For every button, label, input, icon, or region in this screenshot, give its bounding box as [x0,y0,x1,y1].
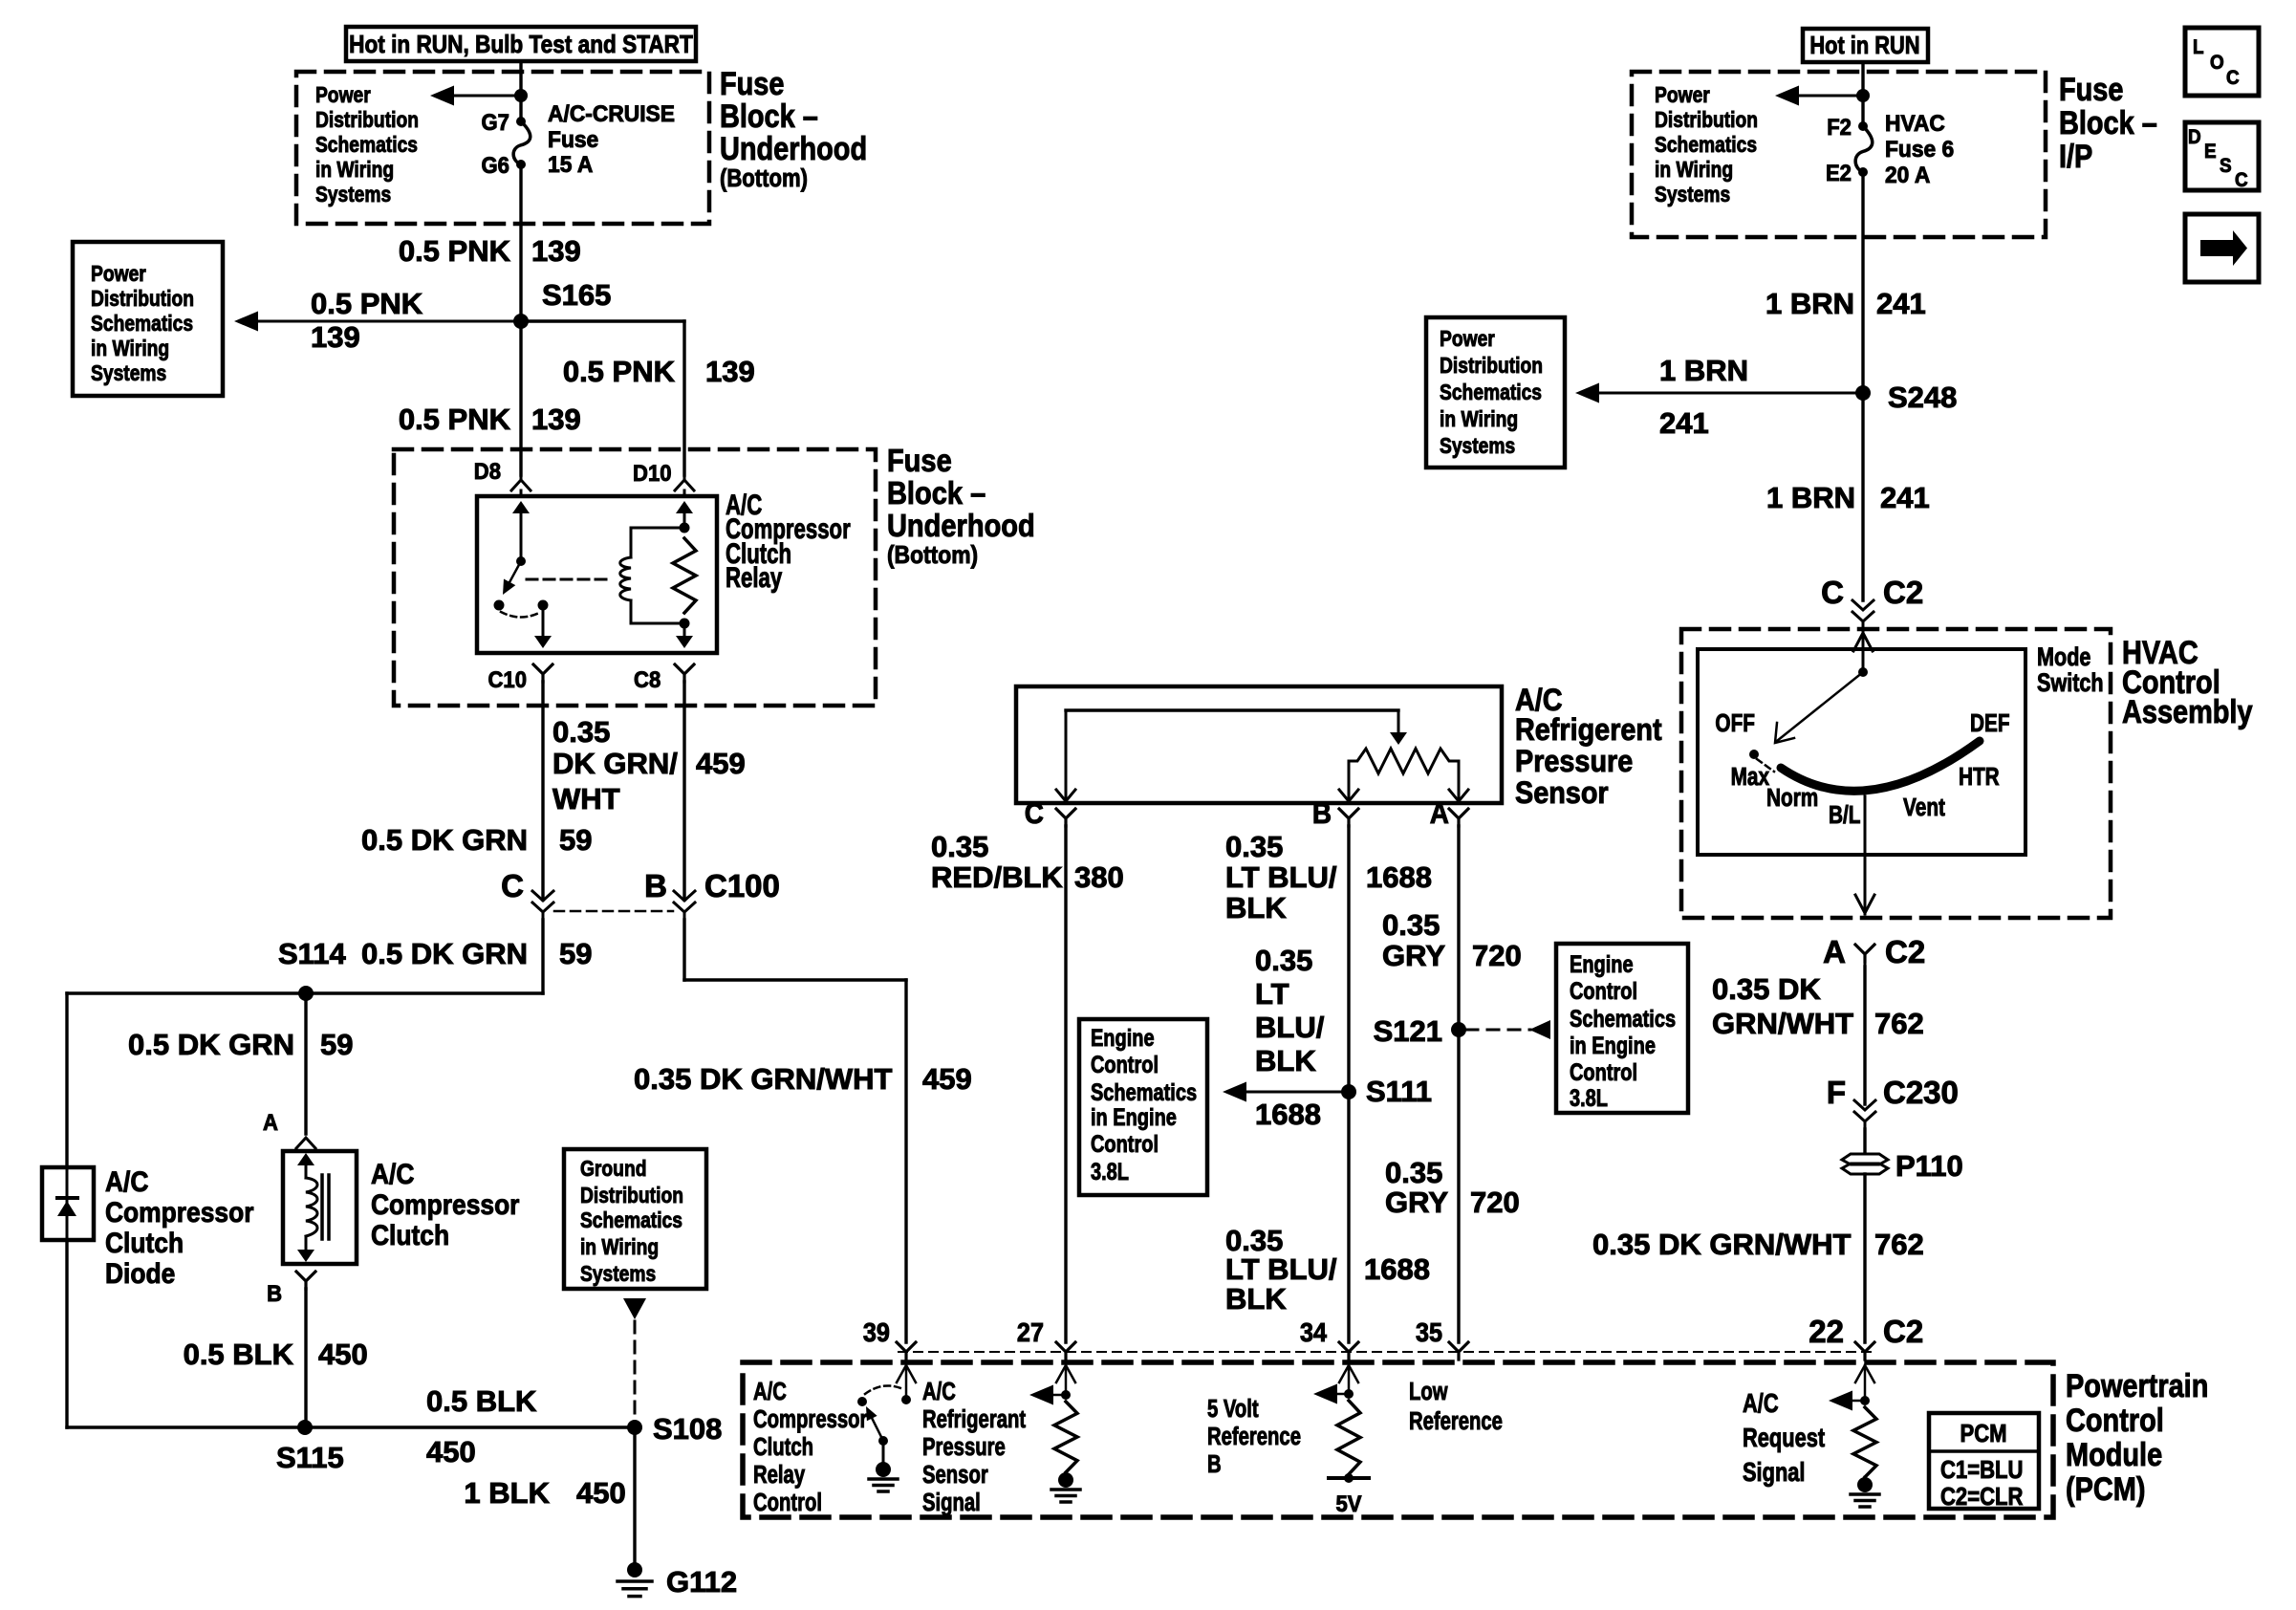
svg-text:Compressor: Compressor [371,1187,519,1220]
PCM ground (sensor signal) [1051,1472,1080,1502]
mode switch dashed detent link [1757,759,1774,772]
relay switch contact (NO) [494,600,505,611]
svg-text:459: 459 [696,747,746,780]
svg-text:G7: G7 [482,109,509,135]
svg-text:1688: 1688 [1364,1252,1430,1286]
PCM ground (relay control) [869,1462,898,1491]
A/C refrigerent pressure sensor box [1016,686,1502,803]
svg-text:1688: 1688 [1366,860,1432,894]
mode switch contact arc [1781,741,1980,791]
svg-text:Schematics: Schematics [315,132,418,157]
corner boxes: right arrow [2185,214,2259,282]
svg-text:Signal: Signal [922,1489,981,1516]
svg-text:in Wiring: in Wiring [91,336,169,360]
PCM 5 volt reference B source [1313,1365,1369,1516]
splice S115 [276,1420,344,1474]
label: HVAC Control Assembly [2122,634,2253,730]
wire 0.35 DK GRN/WHT 459 from C100 to PCM pin 39 [634,920,972,1342]
svg-text:C2: C2 [1885,934,1925,969]
arrow to power distribution schematics [430,86,521,106]
wire 0.35 DK GRN/WHT 459 from C8 to C100 [552,682,746,900]
fuse HVAC Fuse 6 20 A (pins F2-E2) [1826,110,1954,187]
svg-text:0.5 DK GRN: 0.5 DK GRN [361,937,528,970]
svg-text:762: 762 [1874,1228,1924,1261]
svg-text:P110: P110 [1895,1149,1963,1183]
svg-text:Relay: Relay [726,561,782,594]
engine control schematics box (left) [1079,1019,1207,1195]
svg-text:Schematics: Schematics [91,311,193,336]
svg-text:WHT: WHT [552,782,620,816]
svg-text:1 BRN: 1 BRN [1766,481,1855,514]
svg-text:Compressor: Compressor [753,1405,867,1433]
svg-text:RED/BLK: RED/BLK [931,860,1063,894]
svg-text:720: 720 [1470,1186,1520,1219]
svg-text:in Wiring: in Wiring [580,1234,659,1259]
svg-text:Power: Power [1655,82,1710,107]
svg-text:Block –: Block – [720,98,818,135]
clutch plates [322,1175,329,1239]
label: A/C Request Signal [1743,1388,1826,1487]
svg-text:1 BLK: 1 BLK [464,1476,550,1510]
svg-text:Distribution: Distribution [91,286,194,311]
svg-text:L: L [2193,36,2204,58]
A/C compressor clutch relay box [477,496,717,653]
svg-text:Systems: Systems [1440,433,1515,458]
svg-text:LT BLU/: LT BLU/ [1225,860,1337,894]
svg-text:C: C [1821,575,1844,610]
svg-text:Power: Power [91,261,146,286]
svg-text:20 A: 20 A [1885,162,1930,187]
svg-text:A/C: A/C [371,1157,414,1189]
svg-text:Control: Control [1091,1052,1159,1078]
PCM pin 27 connector [1017,1317,1075,1360]
splice S121 [1374,1014,1466,1048]
svg-text:Switch: Switch [2037,669,2104,698]
svg-text:59: 59 [559,823,592,857]
clutch pin A connector [263,1109,315,1148]
mode switch OFF contact [1749,750,1759,759]
svg-text:Fuse 6: Fuse 6 [1885,136,1954,162]
svg-text:C1=BLU: C1=BLU [1940,1456,2024,1484]
svg-text:BLK: BLK [1225,891,1287,925]
svg-text:Systems: Systems [1655,182,1730,207]
svg-text:3.8L: 3.8L [1570,1085,1608,1112]
pin D10 connector [633,460,694,490]
arrow 1688 from S111 to engine control schematics [1223,1082,1349,1132]
wire 0.35 LT BLU/BLK 1688 sensor B to S111 [1225,826,1432,1092]
svg-text:34: 34 [1300,1317,1327,1348]
svg-text:Fuse: Fuse [548,126,598,152]
svg-text:Schematics: Schematics [1655,132,1757,157]
svg-text:Distribution: Distribution [1655,107,1758,132]
svg-text:Schematics: Schematics [1570,1006,1676,1033]
svg-text:Distribution: Distribution [315,107,419,132]
svg-text:S165: S165 [542,278,611,312]
svg-text:in Wiring: in Wiring [1440,406,1518,431]
svg-text:Control: Control [1570,978,1637,1005]
relay coil [620,523,690,629]
corner boxes: DESC [2185,122,2259,191]
svg-text:GRY: GRY [1385,1186,1448,1219]
wire 1 BLK 450 from S108 to G112 [464,1427,635,1565]
relay output contact to C10 [534,600,552,649]
svg-text:B: B [644,868,667,903]
svg-text:BLU/: BLU/ [1255,1011,1325,1044]
note: power distribution schematics (inside I/P fuse block) [1655,82,1758,207]
svg-text:A/C-CRUISE: A/C-CRUISE [548,100,675,126]
connector C100 pin B [644,868,780,920]
fuse block - underhood dashed box (relay) [394,449,876,706]
svg-text:3.8L: 3.8L [1091,1159,1129,1186]
svg-text:OFF: OFF [1715,709,1755,737]
splice S165 [513,278,611,329]
svg-text:Fuse: Fuse [720,65,784,102]
wire 0.5 DK GRN 59 from C10 to C100 [361,682,592,900]
svg-text:Systems: Systems [580,1261,656,1286]
svg-text:Pressure: Pressure [922,1433,1006,1461]
svg-text:Mode: Mode [2037,643,2090,672]
svg-text:Schematics: Schematics [1440,380,1542,404]
svg-text:Power: Power [1440,326,1495,351]
wire from Hot in RUN into fuse block [519,61,522,121]
svg-text:C: C [2226,67,2240,89]
ground distribution schematics box [564,1149,706,1289]
svg-text:0.35 DK: 0.35 DK [1712,972,1821,1006]
wire from diode to ground run [67,1240,305,1427]
wire 0.35 GRY 720 sensor A to S121 [1382,826,1522,1030]
svg-text:A/C: A/C [753,1378,787,1405]
svg-text:G112: G112 [666,1565,737,1599]
svg-text:35: 35 [1416,1317,1442,1348]
svg-text:C: C [1025,797,1044,831]
PCM pin 35 connector [1416,1317,1468,1360]
arrow to power distribution schematics (I/P) [1775,86,1863,106]
sensor pin A connector [1430,797,1468,831]
svg-text:in Engine: in Engine [1570,1033,1656,1059]
wire 0.5 BLK 450 from clutch pin B to S115 [184,1289,368,1427]
mode switch rotor arm [1775,672,1863,743]
svg-text:762: 762 [1874,1007,1924,1040]
svg-text:C230: C230 [1883,1075,1959,1110]
svg-text:0.5 DK GRN: 0.5 DK GRN [128,1028,294,1061]
svg-text:C8: C8 [634,666,661,692]
PCM pin 39 connector [863,1317,916,1360]
svg-text:39: 39 [863,1317,890,1348]
relay switch arm [503,561,521,595]
HVAC control assembly dashed box [1681,629,2111,918]
pass-through grommet P110 [1842,1149,1963,1183]
splice S248 [1855,381,1957,414]
sensor potentiometer element [1339,749,1468,801]
fuse A/C-CRUISE 15 A (pins G7-G6) [482,100,675,178]
svg-text:Vent: Vent [1903,794,1945,821]
svg-text:GRN/WHT: GRN/WHT [1712,1007,1853,1040]
svg-text:241: 241 [1880,481,1930,514]
svg-text:0.35: 0.35 [552,715,610,749]
svg-text:S108: S108 [653,1412,722,1446]
svg-text:Schematics: Schematics [1091,1079,1197,1106]
svg-text:Signal: Signal [1743,1457,1805,1487]
wire 0.35 GRY 720 from S121 to PCM pin 35 [1385,1030,1520,1342]
wire 1 BRN 241 from S248 to HVAC control [1766,393,1930,600]
svg-text:0.35: 0.35 [1382,908,1440,942]
svg-text:in Wiring: in Wiring [1655,157,1733,182]
svg-text:241: 241 [1876,287,1926,320]
svg-text:Refrigerent: Refrigerent [1515,713,1662,748]
svg-text:0.35: 0.35 [1385,1156,1442,1189]
splice S114 [298,986,314,1001]
svg-text:S111: S111 [1366,1075,1432,1108]
svg-text:Refrigerant: Refrigerant [922,1405,1026,1433]
svg-text:Distribution: Distribution [580,1183,683,1207]
svg-text:Control: Control [1570,1059,1637,1086]
svg-text:C2: C2 [1883,1314,1923,1349]
label box "Hot in RUN, Bulb Test and START" [346,27,696,61]
label box "Hot in RUN" [1803,29,1928,62]
wire 1 BRN 241 arrow to power distribution (right) [1575,354,1863,440]
svg-text:15 A: 15 A [548,151,593,177]
wire 0.5 DK GRN 59 from S114 to clutch pin A [128,993,353,1134]
svg-text:Control: Control [753,1489,822,1516]
connector C100 pin C [501,868,553,920]
pin D8 connector [474,458,531,490]
svg-text:Low: Low [1409,1378,1448,1405]
mode switch position labels [1715,709,2009,829]
corner boxes: LOC [2185,28,2259,96]
svg-text:DK GRN/: DK GRN/ [552,747,678,780]
dashed ground reference wire to S108 with arrow [623,1298,646,1427]
sensor pin C connector [1025,797,1075,831]
svg-text:5 Volt: 5 Volt [1207,1395,1259,1423]
sensor internal supply trace (pin C) [1056,710,1398,801]
wire 0.5 PNK 139 to power distribution (arrow) [234,287,521,354]
wire from Hot in RUN into I/P fuse block [1861,62,1864,126]
wire 0.35 DK GRN/WHT 762 from P110 to PCM pin 22 [1592,1174,1924,1342]
PCM A/C compressor clutch relay control driver [857,1365,916,1463]
PCM A/C refrigerant pressure sensor signal input [1029,1365,1077,1472]
relay actuation dashed line [527,578,613,581]
svg-text:0.35: 0.35 [1255,944,1312,977]
svg-text:0.5 PNK: 0.5 PNK [563,355,676,388]
mode switch feed wire [1853,629,1873,677]
svg-text:Assembly: Assembly [2122,693,2253,730]
ground G112 [617,1562,737,1599]
wire 0.35 DK GRN/WHT 762 from HVAC to C230 [1712,967,1924,1104]
svg-text:BLK: BLK [1225,1282,1287,1316]
svg-text:450: 450 [576,1476,626,1510]
PCM connector face dashed line [899,1351,1874,1353]
svg-text:Relay: Relay [753,1461,805,1489]
svg-text:Distribution: Distribution [1440,353,1543,378]
mode switch output wire to pin A [1855,796,1874,914]
junction feeding power distribution (I/P) [1856,89,1870,102]
svg-text:I/P: I/P [2059,138,2092,175]
wire 0.5 DK GRN 59 from C100 to S114 [67,920,592,993]
svg-text:Underhood: Underhood [720,130,867,167]
svg-text:0.5 BLK: 0.5 BLK [184,1338,294,1371]
svg-text:0.5 PNK: 0.5 PNK [399,402,511,436]
wire 0.5 PNK 139 from fuse to S165 [399,164,581,321]
svg-text:22: 22 [1809,1314,1844,1349]
label: A/C Refrigerant Pressure Sensor Signal [922,1378,1026,1516]
svg-text:Clutch: Clutch [371,1218,449,1251]
svg-text:1688: 1688 [1255,1098,1321,1131]
wire 0.5 PNK 139 from S165 to relay coil feed (D10) [521,321,755,475]
svg-text:0.5 DK GRN: 0.5 DK GRN [361,823,528,857]
svg-text:HTR: HTR [1959,763,2000,791]
svg-text:139: 139 [311,320,360,354]
junction in fuse block feeding power distribution [514,89,528,102]
svg-text:B: B [267,1280,282,1306]
svg-text:S: S [2220,155,2232,177]
connector C100 dashed mating line [554,910,673,913]
svg-text:380: 380 [1074,860,1124,894]
svg-text:Block –: Block – [2059,104,2157,141]
svg-text:59: 59 [559,937,592,970]
svg-text:A: A [1823,934,1846,969]
label: A/C Refrigerent Pressure Sensor [1515,684,1662,811]
svg-text:D10: D10 [633,460,671,486]
svg-text:S121: S121 [1374,1014,1442,1048]
svg-text:5V: 5V [1336,1490,1363,1516]
fuse block - underhood dashed box (top) [296,72,709,224]
wire 0.5 BLK 450 from S115 to S108 [305,1384,635,1469]
svg-text:59: 59 [320,1028,353,1061]
clutch coil [297,1153,317,1262]
svg-text:S248: S248 [1888,381,1957,414]
svg-text:Sensor: Sensor [922,1461,988,1489]
svg-text:0.35 DK GRN/WHT: 0.35 DK GRN/WHT [1592,1228,1851,1261]
connector C2 pin A (HVAC) [1823,934,1925,969]
dashed reference to engine control schematics (S121) [1466,1020,1550,1039]
label: A/C Compressor Clutch Relay [726,489,851,594]
label: Fuse Block - Underhood (Bottom) right of relay box [887,443,1035,569]
engine control schematics box (right) [1556,944,1688,1113]
svg-text:Engine: Engine [1091,1025,1155,1052]
svg-text:B: B [1207,1450,1222,1478]
clutch diode symbol [57,1167,77,1240]
relay switch common from D8 [512,490,530,566]
wire 0.5 PNK 139 from S165 down to D8 [399,321,581,475]
svg-text:in Wiring: in Wiring [315,157,394,182]
powertrain control module dashed box [743,1362,2053,1517]
svg-text:Fuse: Fuse [887,443,952,478]
svg-text:C: C [2235,169,2248,191]
wire from C230 to P110 [1863,1129,1866,1153]
svg-text:139: 139 [531,402,581,436]
svg-text:Systems: Systems [91,360,166,385]
svg-text:A/C: A/C [922,1378,956,1405]
svg-text:LT: LT [1255,977,1289,1011]
svg-text:LT BLU/: LT BLU/ [1225,1252,1337,1286]
svg-text:(Bottom): (Bottom) [720,164,808,192]
svg-text:O: O [2210,52,2224,74]
svg-text:Engine: Engine [1570,951,1634,978]
label: A/C Compressor Clutch Diode [105,1164,253,1289]
svg-text:(Bottom): (Bottom) [887,542,978,570]
note: power distribution schematics in wiring systems (inside fuse block) [315,82,419,207]
svg-text:241: 241 [1659,406,1709,440]
A/C compressor clutch box [283,1151,357,1264]
fuse block - I/P dashed box [1632,72,2046,237]
svg-text:Power: Power [315,82,371,107]
label: Powertrain Control Module (PCM) [2066,1367,2208,1508]
svg-text:0.5 PNK: 0.5 PNK [311,287,423,320]
relay switch mechanical dashed arc [501,612,541,618]
svg-text:1 BRN: 1 BRN [1765,287,1854,320]
svg-text:139: 139 [531,234,581,268]
label: Low Reference (pin 35) [1409,1378,1503,1435]
label: A/C Compressor Clutch [371,1157,519,1251]
svg-text:Block –: Block – [887,475,986,511]
svg-text:D8: D8 [474,458,501,484]
svg-text:Underhood: Underhood [887,508,1035,543]
pin C8 connector [634,664,694,692]
svg-text:1 BRN: 1 BRN [1659,354,1748,387]
svg-text:F2: F2 [1827,114,1852,140]
svg-text:A: A [1430,797,1449,831]
svg-text:Max: Max [1731,763,1769,791]
svg-text:C10: C10 [488,666,527,692]
PCM A/C request signal input [1829,1365,1876,1480]
PCM pin 34 connector [1300,1317,1358,1360]
svg-text:Systems: Systems [315,182,391,207]
wire from S114 to clutch diode [65,993,68,1167]
svg-text:in Engine: in Engine [1091,1104,1177,1131]
svg-text:Reference: Reference [1207,1423,1301,1450]
svg-text:Reference: Reference [1409,1407,1503,1435]
label: 5 Volt Reference B [1207,1395,1301,1478]
svg-text:Compressor: Compressor [105,1195,253,1228]
svg-text:Powertrain: Powertrain [2066,1367,2208,1404]
label: Fuse Block - Underhood (Bottom) [720,65,867,193]
wire 1 BRN 241 from fuse to S248 [1765,172,1926,393]
svg-text:DEF: DEF [1970,709,2010,737]
svg-text:BLK: BLK [1255,1044,1316,1077]
svg-text:Pressure: Pressure [1515,745,1633,779]
svg-text:Diode: Diode [105,1256,175,1289]
svg-text:0.35 DK GRN/WHT: 0.35 DK GRN/WHT [634,1062,892,1096]
svg-text:C2=CLR: C2=CLR [1940,1483,2024,1511]
svg-text:A/C: A/C [1743,1388,1779,1418]
svg-text:Clutch: Clutch [753,1433,813,1461]
relay coil suppression resistor [673,538,696,613]
svg-text:Schematics: Schematics [580,1207,682,1232]
svg-text:HVAC: HVAC [1885,110,1945,136]
PCM connector legend box [1929,1413,2039,1511]
power distribution schematics box (right) [1426,317,1565,468]
splice S108 [627,1412,722,1446]
relay coil return to C8 [676,623,693,648]
svg-text:0.35: 0.35 [1225,830,1283,863]
label: A/C Compressor Clutch Relay Control [753,1378,867,1516]
svg-text:B: B [1312,797,1332,831]
svg-text:Control: Control [1091,1131,1159,1158]
svg-text:B/L: B/L [1829,801,1860,829]
sensor pin B connector [1312,797,1358,831]
clutch pin B connector [267,1272,315,1306]
svg-text:450: 450 [318,1338,368,1371]
PCM ground (A/C request) [1851,1477,1879,1507]
wire 0.35 RED/BLK 380 sensor C to PCM pin 27 [931,826,1124,1342]
A/C compressor clutch diode box [42,1167,94,1240]
power distribution schematics box (left) [73,242,223,396]
svg-text:C: C [501,868,524,903]
svg-text:Ground: Ground [580,1156,647,1181]
svg-text:720: 720 [1472,939,1522,972]
svg-text:Sensor: Sensor [1515,776,1609,811]
svg-text:A: A [263,1109,278,1135]
